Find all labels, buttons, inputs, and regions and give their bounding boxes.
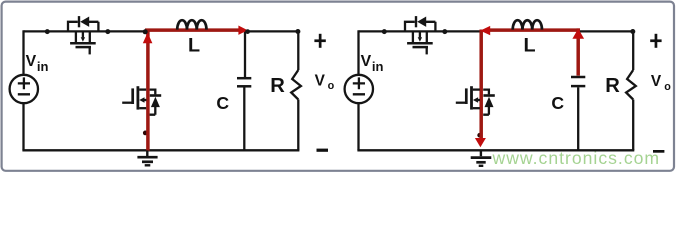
wire capacitor branch lower (243, 88, 245, 151)
red left arrowhead at switch node right circuit (480, 26, 490, 35)
Q1 drain stub (75, 31, 77, 42)
Q1 gate lead (89, 47, 91, 54)
inductor L right circuit (513, 20, 542, 29)
voltage source Vin (10, 75, 38, 103)
low-side MOSFET Q4 right circuit (456, 86, 495, 115)
low-side MOSFET Q2 (122, 86, 161, 115)
diode D3 triangle (417, 17, 426, 27)
svg-text:in: in (37, 59, 49, 74)
label C (216, 93, 229, 113)
label L right circuit (524, 34, 536, 56)
body diode D2 triangle (151, 97, 160, 107)
Q2 gate lead (122, 102, 133, 104)
junction dot load corner left (295, 29, 300, 34)
minus sign output left (317, 149, 329, 152)
red down arrowhead above ground right circuit (475, 138, 486, 147)
svg-text:o: o (664, 81, 671, 93)
node dot right of Q3 (442, 29, 447, 34)
wire top rail left segment (24, 30, 147, 32)
Q3 channel bar (407, 42, 433, 45)
label R right circuit (605, 75, 620, 97)
wire top rail left segment right circuit (359, 30, 481, 32)
wire load branch upper (297, 31, 299, 70)
inductor L (177, 20, 206, 29)
svg-text:L: L (524, 34, 536, 56)
Q1 body stub with arrow (81, 31, 85, 41)
Q1 gate bar (76, 46, 92, 49)
diode D1 triangle (80, 17, 89, 27)
svg-text:C: C (216, 93, 229, 113)
minus sign output right (653, 150, 664, 153)
svg-text:R: R (605, 75, 620, 97)
red up arrowhead at switch node (143, 33, 153, 44)
switch node dot left circuit (143, 29, 148, 34)
wire left branch lower right circuit (357, 104, 359, 151)
wire left branch upper right circuit (357, 30, 359, 74)
svg-text:V: V (651, 73, 662, 90)
Q1 channel bar (70, 42, 96, 45)
Q4 body stub with arrow (473, 97, 480, 103)
watermark www.cntronics.com (492, 148, 661, 168)
Q3 gate lead (426, 47, 428, 54)
svg-text:V: V (315, 72, 326, 89)
plus sign output left (314, 34, 325, 48)
body diode D2 cathode bar (150, 94, 161, 97)
Q2 channel bar (136, 86, 139, 109)
ground symbol right (471, 150, 492, 166)
label Vo right circuit (651, 73, 671, 93)
svg-text:V: V (361, 53, 372, 70)
border frame (2, 2, 674, 171)
svg-text:in: in (372, 59, 384, 74)
red current path vertical (low-side branch) right circuit (479, 30, 483, 139)
body diode D4 cathode bar (483, 94, 494, 97)
diode D3 cathode bar (415, 16, 417, 27)
body diode D2 loop wires (150, 90, 156, 115)
svg-text:L: L (188, 34, 200, 56)
Q4 channel bar (470, 86, 473, 109)
junction dot load corner right (630, 29, 635, 34)
svg-text:R: R (270, 75, 285, 97)
label R (270, 75, 285, 97)
red current path horizontal through inductor (145, 28, 240, 32)
Q3 body stub with arrow (418, 31, 422, 41)
wire capacitor branch lower right circuit (577, 87, 579, 150)
resistor R right circuit (626, 70, 636, 100)
body diode D4 loop wires (483, 90, 489, 115)
red current path horizontal through inductor right circuit (486, 28, 580, 32)
junction dot on low branch (143, 131, 148, 136)
junction dot capacitor branch left (245, 29, 250, 34)
junction dot on low branch right circuit (477, 133, 482, 138)
Q3 source stub (426, 31, 428, 42)
label Vo (315, 72, 335, 92)
wire capacitor branch upper (244, 31, 246, 77)
label Vin (26, 53, 49, 74)
Q4 gate bar (465, 88, 468, 104)
wire bottom rail (22, 149, 299, 151)
capacitor C bottom plate (237, 85, 251, 88)
wire bottom rail right circuit (357, 149, 634, 151)
red current path capacitor branch right circuit (576, 28, 580, 75)
Q1 source stub (89, 31, 91, 42)
ground symbol left (137, 150, 157, 165)
svg-text:C: C (551, 93, 564, 113)
top switch Q3 (MOSFET with body diode) right circuit (382, 16, 448, 54)
wire load branch lower right circuit (632, 100, 634, 151)
Q3 drain stub (412, 31, 414, 42)
Q4 gate lead (456, 102, 467, 104)
capacitor C bottom plate right circuit (571, 85, 585, 88)
svg-text:V: V (26, 53, 37, 70)
label L (188, 34, 200, 56)
wire left branch upper (22, 30, 24, 74)
Q4 drain stub (473, 88, 480, 90)
diode D1 loop wires (68, 22, 98, 32)
body diode D4 triangle (485, 97, 494, 107)
label Vin right circuit (361, 53, 384, 74)
red current path vertical (low-side branch) (146, 31, 150, 151)
voltage source Vin right circuit (345, 75, 373, 103)
Q2 drain stub (139, 88, 146, 90)
Q2 source stub (139, 107, 146, 109)
plus sign output right (650, 34, 661, 48)
Q4 source stub (473, 107, 480, 109)
Q2 gate bar (131, 88, 134, 104)
wire left branch lower (22, 104, 24, 151)
node dot left of Q1 (45, 29, 50, 34)
label C right circuit (551, 93, 564, 113)
top switch Q1 (MOSFET with body diode) (45, 16, 111, 54)
diode D1 cathode bar (78, 16, 80, 27)
resistor R (291, 70, 301, 100)
red right arrowhead at output node (238, 26, 247, 35)
wire load branch upper right circuit (632, 31, 634, 70)
diode D3 loop wires (405, 22, 435, 32)
node dot right of Q1 (105, 29, 110, 34)
wire top rail right segment right circuit (578, 30, 633, 32)
capacitor C top plate (237, 77, 251, 80)
Q2 body stub with arrow (139, 97, 146, 103)
capacitor C top plate right circuit (571, 76, 585, 79)
red up arrowhead on capacitor branch right circuit (572, 29, 584, 39)
node dot left of Q3 (382, 29, 387, 34)
wire load branch lower (297, 100, 299, 151)
wire top rail right segment (244, 30, 298, 32)
svg-text:o: o (328, 80, 335, 92)
Q3 gate bar (413, 46, 429, 49)
